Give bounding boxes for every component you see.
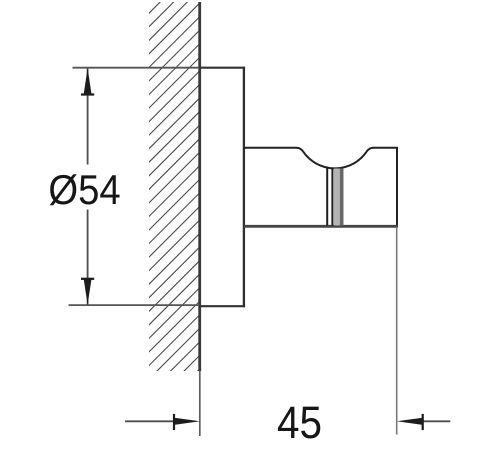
dimension line Ø54 lower segment xyxy=(87,210,89,305)
knob seam line 1 xyxy=(326,168,328,226)
svg-text:45: 45 xyxy=(277,398,322,448)
mounting plate right edge xyxy=(243,67,245,307)
mounting plate top edge xyxy=(199,67,245,69)
knob outline xyxy=(244,148,397,226)
extension line top (Ø54) xyxy=(73,67,201,69)
arrow up (Ø54 top) xyxy=(84,68,92,95)
arrow up crossbar xyxy=(81,93,94,95)
dimension line Ø54 upper segment xyxy=(87,68,89,165)
arrow down (Ø54 bottom) xyxy=(84,278,92,305)
arrow right (45 left) xyxy=(173,418,200,425)
arrow right crossbar xyxy=(173,414,175,430)
extension line below wall (45 left) xyxy=(199,371,201,436)
knob seam shading xyxy=(334,169,340,226)
arrow left (45 right) xyxy=(397,418,424,425)
dimension line 45 left segment xyxy=(125,420,175,422)
svg-text:Ø54: Ø54 xyxy=(48,166,120,213)
wall surface edge xyxy=(198,2,201,371)
knob seam line 3 xyxy=(340,169,344,226)
mounting plate bottom edge xyxy=(199,305,245,307)
arrow down crossbar xyxy=(81,278,94,280)
knob seam line 2 xyxy=(331,168,333,226)
dimension line 45 right segment xyxy=(423,420,451,422)
knob bottom edge xyxy=(244,225,398,228)
extension line below knob (45 right) xyxy=(396,227,398,435)
extension line bottom (Ø54) xyxy=(69,304,201,306)
arrow left crossbar xyxy=(422,414,424,430)
